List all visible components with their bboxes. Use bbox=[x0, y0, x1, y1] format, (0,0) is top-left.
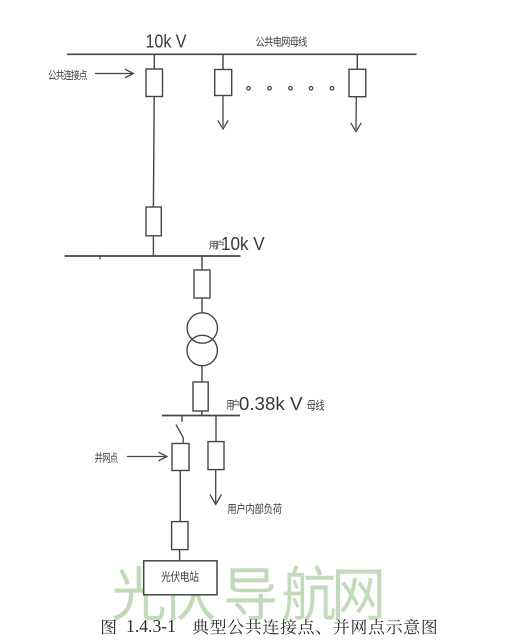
breaker CB2 on second feeder bbox=[215, 70, 232, 96]
transformer T1 secondary winding bbox=[187, 335, 217, 365]
transformer T1 primary winding bbox=[187, 313, 217, 343]
wire: CB9 down to PV station bbox=[179, 550, 181, 561]
PV power station box bbox=[144, 561, 217, 595]
arrow: CB2 feeder down to load bbox=[218, 96, 228, 130]
label: user 10kV bus bbox=[209, 234, 265, 254]
wire: CB5 down to transformer T1 bbox=[201, 298, 203, 314]
bus B1: 10kV public grid busbar bbox=[67, 53, 417, 55]
arrow: CB8 down to user internal load bbox=[210, 470, 222, 505]
breaker CB1 at PCC bbox=[146, 69, 163, 97]
label: point of common coupling bbox=[48, 70, 87, 80]
wire: CB1 down to breaker CB4 bbox=[152, 97, 155, 208]
wire: bus B3 down to breaker CB8 bbox=[215, 416, 217, 442]
label: 10kV system voltage bbox=[146, 30, 188, 51]
arrow: CB3 feeder down to load bbox=[351, 97, 362, 132]
svg-text:0.38k V: 0.38k V bbox=[239, 393, 303, 414]
bus B2: user 10kV busbar bbox=[65, 255, 241, 257]
breaker CB8 internal load feeder bbox=[208, 442, 224, 470]
label: user 0.38kV busbar bbox=[227, 393, 325, 414]
ellipsis dots: additional feeders bbox=[247, 87, 334, 91]
bus B3: user 0.38kV busbar bbox=[162, 415, 240, 417]
wire: CB4 down to user 10kV bus bbox=[152, 236, 154, 256]
wire: bus B2 down to breaker CB5 bbox=[201, 256, 203, 270]
wire: bus B1 down to breaker CB3 bbox=[356, 54, 358, 69]
wire: bus B1 down to breaker CB1 bbox=[153, 54, 155, 69]
label: user internal load bbox=[228, 503, 282, 514]
wire: bus B1 down to breaker CB2 bbox=[222, 54, 224, 70]
svg-text:10k V: 10k V bbox=[146, 30, 188, 51]
disconnect switch S1 (open) below bus B3 bbox=[176, 416, 183, 444]
caption: figure 1.4.3-1 typical PCC and POI schematic bbox=[102, 616, 437, 636]
wire: CB7 down to breaker CB9 bbox=[179, 471, 181, 522]
arrow pointing to breaker CB7 bbox=[127, 452, 167, 461]
breaker CB7 at point of interconnection bbox=[172, 444, 189, 471]
breaker CB4 user incoming bbox=[146, 207, 161, 236]
label: public grid busbar bbox=[256, 36, 307, 47]
svg-text:1.4.3-1: 1.4.3-1 bbox=[126, 616, 176, 636]
wire: transformer T1 down to breaker CB6 bbox=[201, 366, 203, 382]
breaker CB9 PV station outgoing bbox=[172, 522, 188, 550]
arrow pointing to PCC breaker CB1 bbox=[95, 69, 134, 78]
breaker CB5 transformer HV side bbox=[194, 270, 210, 298]
breaker CB6 transformer LV side bbox=[193, 382, 208, 411]
label: point of interconnection bbox=[95, 452, 118, 463]
breaker CB3 on rightmost feeder bbox=[349, 69, 366, 96]
watermark text PV-navigation (light green) bbox=[113, 565, 381, 620]
junction tick on bus B2 bbox=[99, 255, 101, 260]
svg-text:10k V: 10k V bbox=[221, 234, 265, 254]
wire: CB6 down to user 0.38kV bus bbox=[201, 411, 203, 416]
label: PV power station bbox=[161, 571, 198, 582]
